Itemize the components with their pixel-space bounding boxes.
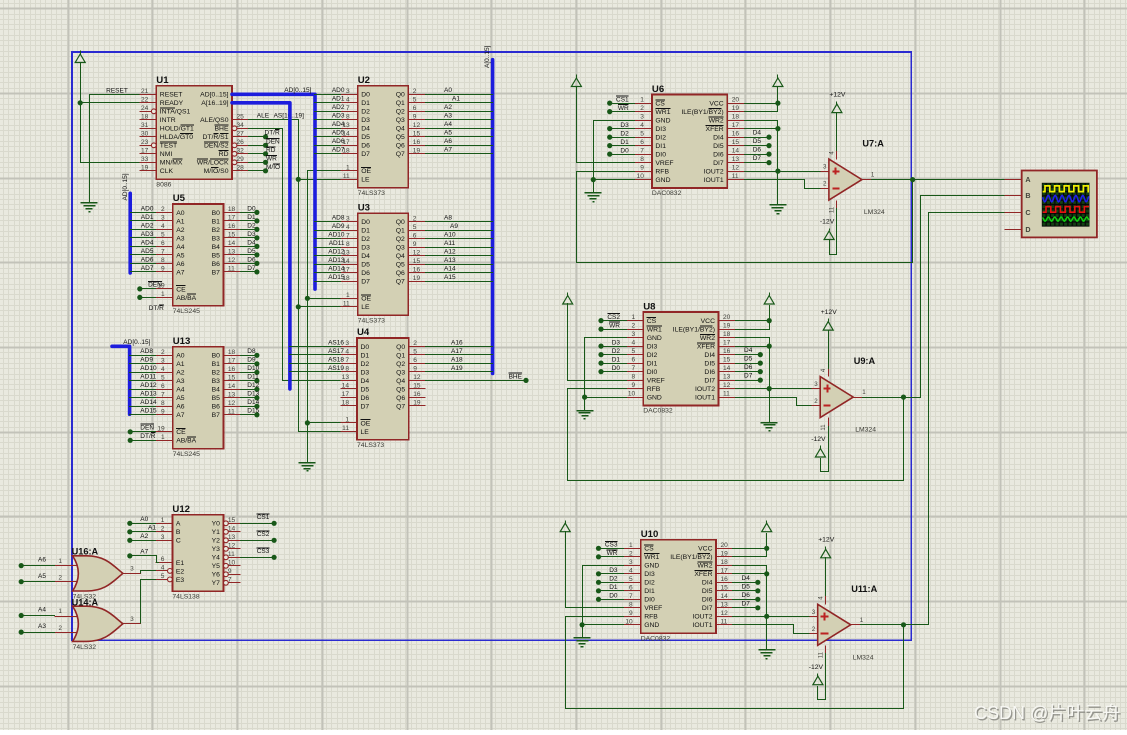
svg-text:8: 8 (346, 241, 350, 248)
wires U10 DI4-DI7 (D4-D7) (733, 582, 758, 584)
svg-text:9: 9 (629, 610, 633, 617)
svg-text:U16:A: U16:A (72, 546, 99, 556)
svg-text:17: 17 (732, 122, 740, 129)
svg-text:D3: D3 (361, 369, 370, 376)
svg-text:A2: A2 (140, 533, 148, 540)
svg-text:GND: GND (655, 118, 670, 125)
svg-text:D7: D7 (361, 151, 370, 158)
wire U3 OE branch (308, 298, 341, 300)
wire +12V supply to U7:A (836, 113, 838, 151)
svg-text:AB/BA: AB/BA (176, 438, 196, 445)
svg-text:6: 6 (161, 556, 165, 563)
svg-text:DI6: DI6 (702, 597, 713, 604)
svg-text:CE: CE (176, 429, 186, 436)
svg-text:D6: D6 (361, 143, 370, 150)
svg-text:2: 2 (413, 340, 417, 347)
svg-text:14: 14 (723, 365, 731, 372)
svg-text:A7: A7 (176, 412, 185, 419)
svg-text:7: 7 (345, 357, 349, 364)
svg-text:18: 18 (228, 349, 236, 356)
svg-text:-12V: -12V (811, 436, 826, 443)
svg-text:1: 1 (629, 542, 633, 549)
svg-text:D5: D5 (361, 386, 370, 393)
svg-text:U7:A: U7:A (862, 139, 884, 149)
svg-text:16: 16 (723, 348, 731, 355)
svg-text:A6: A6 (444, 138, 452, 145)
svg-text:A2: A2 (444, 104, 452, 111)
svg-text:Q0: Q0 (396, 344, 405, 351)
svg-text:11: 11 (721, 618, 728, 625)
svg-text:AD11: AD11 (140, 374, 156, 381)
svg-text:A3: A3 (176, 235, 185, 242)
svg-text:1: 1 (59, 558, 63, 565)
svg-text:A6: A6 (38, 557, 46, 564)
svg-text:26: 26 (237, 139, 245, 146)
wire U8 WR2/XFER/IOUT2 chain to ground (736, 338, 770, 423)
svg-text:8: 8 (345, 366, 349, 373)
svg-text:CS: CS (655, 101, 665, 108)
svg-text:CS3: CS3 (257, 548, 270, 555)
svg-text:A7: A7 (176, 269, 185, 276)
wire U8 GND pins to ground (585, 338, 627, 411)
svg-text:A0: A0 (176, 353, 185, 360)
svg-text:18: 18 (342, 400, 350, 407)
svg-text:11: 11 (830, 206, 836, 213)
svg-text:Y5: Y5 (212, 563, 221, 570)
svg-text:A9: A9 (450, 223, 458, 230)
svg-text:DEN: DEN (140, 425, 154, 432)
svg-text:74LS32: 74LS32 (73, 644, 97, 651)
svg-text:2: 2 (640, 105, 644, 112)
svg-text:AS16: AS16 (328, 339, 344, 346)
svg-text:15: 15 (413, 130, 421, 137)
svg-text:3: 3 (346, 215, 350, 222)
svg-text:15: 15 (413, 383, 421, 390)
power arrow +12V U7:A (832, 102, 842, 113)
svg-text:D1: D1 (361, 100, 370, 107)
svg-text:2: 2 (632, 323, 636, 330)
svg-text:A3: A3 (444, 113, 452, 120)
power arrow U8 VREF (563, 293, 573, 305)
svg-text:DI3: DI3 (644, 571, 655, 578)
ground U10 left (574, 638, 591, 647)
svg-text:18: 18 (723, 331, 731, 338)
svg-text:9: 9 (161, 266, 165, 273)
svg-text:A1: A1 (176, 218, 185, 225)
svg-text:AS18: AS18 (328, 356, 344, 363)
wires U8 DI3-DI0 (D3-D0) (601, 346, 627, 348)
svg-text:A1: A1 (148, 525, 156, 532)
svg-text:A11: A11 (444, 240, 455, 247)
wire U8 VCC/ILE to supply arrow (736, 306, 770, 330)
svg-text:7: 7 (632, 365, 636, 372)
svg-text:2: 2 (823, 181, 827, 188)
svg-text:23: 23 (141, 139, 149, 146)
svg-text:18: 18 (141, 113, 149, 120)
wire U8 CS (CS2) (601, 320, 627, 322)
wire U6 RFB feedback (577, 172, 913, 263)
svg-text:3: 3 (640, 114, 644, 121)
svg-text:15: 15 (721, 584, 729, 591)
svg-text:RD: RD (219, 151, 229, 158)
svg-text:A: A (1025, 175, 1030, 184)
svg-text:DI4: DI4 (702, 580, 713, 587)
svg-text:1: 1 (862, 389, 866, 396)
svg-text:7: 7 (629, 593, 633, 600)
svg-text:WR/LOCK: WR/LOCK (197, 160, 229, 167)
svg-text:WR1: WR1 (655, 109, 670, 116)
svg-text:AD0: AD0 (332, 87, 345, 94)
svg-text:Q1: Q1 (396, 100, 405, 107)
svg-text:11: 11 (228, 551, 235, 558)
svg-text:AD15: AD15 (140, 408, 157, 415)
svg-text:RESET: RESET (160, 92, 183, 99)
svg-text:+12V: +12V (829, 91, 846, 98)
wires U8 DI4-DI7 (D4-D7) (736, 354, 761, 356)
svg-text:LM324: LM324 (864, 209, 885, 216)
wire latched BHE from U4 Q4 (426, 380, 527, 382)
svg-text:U4: U4 (357, 327, 370, 338)
svg-text:Y2: Y2 (212, 538, 221, 545)
svg-text:24: 24 (141, 105, 149, 112)
svg-text:OE: OE (361, 296, 371, 303)
wire U10 GND pins to ground (583, 566, 624, 638)
svg-text:19: 19 (721, 550, 729, 557)
wire U8 WR1 (WR) (601, 329, 627, 331)
svg-text:Y1: Y1 (212, 529, 221, 536)
svg-text:11: 11 (818, 651, 824, 658)
svg-text:16: 16 (413, 391, 421, 398)
svg-text:9: 9 (413, 241, 417, 248)
svg-text:A5: A5 (176, 395, 185, 402)
svg-text:4: 4 (640, 122, 644, 129)
wire U8 VREF to supply arrow (568, 304, 627, 381)
svg-text:3: 3 (346, 88, 350, 95)
svg-text:11: 11 (343, 173, 350, 180)
svg-text:16: 16 (228, 223, 236, 230)
svg-text:DI6: DI6 (713, 152, 724, 159)
svg-text:D3: D3 (361, 117, 370, 124)
svg-text:3: 3 (161, 534, 165, 541)
svg-text:12: 12 (723, 382, 731, 389)
svg-text:6: 6 (640, 139, 644, 146)
svg-text:16: 16 (732, 131, 740, 138)
svg-text:AD4: AD4 (141, 239, 154, 246)
svg-text:ALE: ALE (257, 112, 270, 119)
svg-text:9: 9 (228, 568, 232, 575)
svg-text:25: 25 (237, 113, 245, 120)
svg-text:WR2: WR2 (709, 118, 724, 125)
svg-text:9: 9 (413, 113, 417, 120)
svg-text:7: 7 (161, 249, 165, 256)
svg-text:DT/R/S1: DT/R/S1 (202, 134, 228, 141)
svg-text:IOUT1: IOUT1 (704, 177, 724, 184)
wires U2 Q outputs to A bus (426, 94, 493, 96)
svg-text:Q3: Q3 (396, 369, 405, 376)
svg-text:B2: B2 (212, 227, 221, 234)
wire U8 IOUT1 to op-amp - input (736, 398, 812, 406)
svg-text:D14: D14 (247, 399, 259, 406)
svg-text:8: 8 (346, 113, 350, 120)
svg-text:B3: B3 (212, 235, 221, 242)
svg-text:D5: D5 (753, 138, 762, 145)
svg-text:12: 12 (228, 542, 236, 549)
svg-text:D5: D5 (361, 134, 370, 141)
svg-text:XFER: XFER (706, 126, 724, 133)
svg-text:AB/BA: AB/BA (176, 295, 196, 302)
svg-text:BHE: BHE (215, 126, 229, 133)
svg-text:D1: D1 (612, 356, 621, 363)
svg-text:NMI: NMI (160, 151, 173, 158)
svg-text:A7: A7 (140, 549, 148, 556)
svg-text:2: 2 (59, 574, 63, 581)
svg-text:5: 5 (161, 573, 165, 580)
svg-text:8: 8 (632, 374, 636, 381)
svg-text:U1: U1 (156, 75, 169, 86)
svg-text:U2: U2 (358, 75, 370, 86)
svg-text:1: 1 (640, 97, 644, 104)
svg-text:4: 4 (346, 96, 350, 103)
svg-text:A0: A0 (140, 516, 148, 523)
svg-text:A5: A5 (38, 573, 46, 580)
wire U10 VCC/ILE to supply arrow (733, 534, 767, 557)
svg-text:13: 13 (732, 156, 740, 163)
svg-text:XFER: XFER (694, 571, 712, 578)
power arrow -12V U9:A (815, 446, 825, 458)
wire U9:A output to scope (863, 196, 1005, 398)
wire U5 CE (DEN) (140, 288, 156, 290)
chip U4 74LS373 (341, 327, 426, 449)
svg-text:9: 9 (640, 165, 644, 172)
svg-text:+12V: +12V (821, 309, 838, 316)
svg-text:D6: D6 (753, 147, 762, 154)
svg-text:LM324: LM324 (855, 427, 876, 434)
wire U10 WR2/XFER/IOUT2 chain to ground (733, 566, 767, 650)
wire U6 WR1 (WR) (610, 111, 635, 113)
svg-text:DI2: DI2 (647, 352, 658, 359)
svg-text:D4: D4 (753, 130, 762, 137)
wire M/IO stub (249, 170, 266, 172)
svg-text:7: 7 (161, 391, 165, 398)
svg-text:AD2: AD2 (141, 222, 154, 229)
svg-text:B0: B0 (212, 353, 221, 360)
svg-text:16: 16 (413, 266, 421, 273)
svg-text:11: 11 (821, 424, 827, 431)
wire U12 A input (A0) (130, 523, 156, 525)
wires U12 Y0/Y2/Y4 chip selects (241, 523, 275, 525)
svg-text:WR2: WR2 (697, 563, 712, 570)
svg-text:B: B (176, 529, 181, 536)
svg-text:Y3: Y3 (212, 546, 221, 553)
svg-text:12: 12 (413, 122, 421, 129)
svg-text:HOLD/GT1: HOLD/GT1 (160, 126, 194, 133)
svg-text:12: 12 (721, 610, 729, 617)
waveform channel C red square (1043, 207, 1089, 213)
wires U6 DI4-DI7 (D4-D7) (745, 137, 769, 139)
svg-text:3: 3 (130, 616, 134, 623)
svg-text:CS2: CS2 (607, 314, 620, 321)
wire READY (81, 102, 140, 104)
svg-text:-12V: -12V (809, 664, 824, 671)
svg-text:3: 3 (632, 331, 636, 338)
svg-text:WR: WR (607, 550, 618, 557)
svg-text:16: 16 (413, 139, 421, 146)
wires U3 Q outputs to A bus (426, 221, 493, 223)
waveform channel A yellow square (1043, 186, 1089, 192)
wire A6 input (22, 565, 55, 567)
svg-text:D0: D0 (361, 344, 370, 351)
power arrow U6 VCC (773, 75, 783, 87)
svg-text:3: 3 (161, 215, 165, 222)
svg-text:GND: GND (647, 335, 662, 342)
svg-text:D5: D5 (742, 583, 751, 590)
svg-text:6: 6 (413, 357, 417, 364)
svg-text:3: 3 (130, 566, 134, 573)
svg-text:D3: D3 (361, 245, 370, 252)
chip U5 74LS245 (156, 193, 241, 315)
svg-text:DI2: DI2 (644, 580, 655, 587)
svg-text:D4: D4 (742, 575, 751, 582)
svg-text:12: 12 (413, 249, 421, 256)
svg-text:U9:A: U9:A (854, 356, 876, 366)
svg-text:AD9: AD9 (332, 223, 345, 230)
svg-text:DI7: DI7 (704, 378, 715, 385)
svg-text:MN/MX: MN/MX (160, 160, 183, 167)
svg-text:D12: D12 (247, 382, 259, 389)
svg-text:WR: WR (618, 105, 629, 112)
svg-text:74LS245: 74LS245 (173, 451, 200, 458)
svg-text:4: 4 (632, 340, 636, 347)
svg-text:11: 11 (228, 408, 235, 415)
svg-text:IOUT2: IOUT2 (704, 169, 724, 176)
power arrow U8 VCC (764, 293, 774, 305)
wire U8 RFB feedback (568, 389, 904, 481)
svg-text:8: 8 (161, 257, 165, 264)
svg-text:D7: D7 (361, 279, 370, 286)
svg-text:AD[0..15]: AD[0..15] (284, 87, 311, 94)
svg-text:D5: D5 (361, 262, 370, 269)
svg-text:7: 7 (346, 105, 350, 112)
svg-text:Y4: Y4 (212, 555, 221, 562)
svg-text:DI0: DI0 (644, 597, 655, 604)
wire U16 output to U12 E2 (141, 571, 156, 574)
svg-text:30: 30 (141, 130, 149, 137)
svg-text:Y0: Y0 (212, 521, 221, 528)
svg-text:18: 18 (732, 114, 740, 121)
svg-text:B4: B4 (212, 244, 221, 251)
power arrow -12V U7:A (824, 229, 834, 240)
svg-text:5: 5 (413, 224, 417, 231)
svg-text:14: 14 (732, 148, 740, 155)
svg-text:17: 17 (141, 147, 149, 154)
svg-text:DAC0832: DAC0832 (643, 408, 673, 415)
wire U6 IOUT1 to op-amp - input (745, 180, 821, 189)
wires U3 D taps from AD bus (315, 221, 341, 223)
svg-text:20: 20 (732, 97, 740, 104)
svg-text:DT/R: DT/R (265, 130, 280, 137)
svg-text:CS1: CS1 (257, 514, 270, 521)
wire U12 E1 input (A7) (130, 556, 159, 563)
wire U13 CE (DEN) (131, 431, 156, 433)
svg-text:74LS373: 74LS373 (358, 190, 385, 197)
svg-text:D1: D1 (361, 352, 370, 359)
svg-text:12: 12 (228, 257, 236, 264)
svg-text:D4: D4 (247, 239, 256, 246)
svg-text:INTA/QS1: INTA/QS1 (160, 109, 191, 116)
svg-text:B6: B6 (212, 261, 221, 268)
svg-text:DI1: DI1 (655, 143, 666, 150)
oscilloscope (1005, 171, 1097, 238)
wire A3 input (22, 632, 55, 634)
svg-text:D0: D0 (361, 92, 370, 99)
svg-text:8: 8 (629, 601, 633, 608)
svg-text:AD12: AD12 (328, 249, 345, 256)
svg-text:B3: B3 (212, 378, 221, 385)
svg-text:Q6: Q6 (396, 143, 405, 150)
svg-text:ILE(BY1/BY2): ILE(BY1/BY2) (681, 109, 723, 116)
svg-text:GND: GND (647, 395, 662, 402)
svg-text:2: 2 (413, 215, 417, 222)
svg-text:9: 9 (413, 366, 417, 373)
ground (below U4) (299, 463, 316, 471)
svg-text:M/IO: M/IO (266, 164, 280, 171)
svg-text:WR: WR (266, 156, 277, 163)
svg-text:3: 3 (814, 381, 818, 388)
svg-text:74LS245: 74LS245 (173, 308, 200, 315)
wire U10 IOUT2 to op-amp + input (733, 616, 810, 618)
svg-text:IOUT2: IOUT2 (692, 614, 712, 621)
wire U5 AB/BA (DT/R) (140, 297, 156, 299)
svg-text:Q4: Q4 (396, 126, 405, 133)
svg-text:3: 3 (823, 164, 827, 171)
wire ALE to LE line (249, 120, 341, 432)
svg-text:A6: A6 (176, 404, 185, 411)
bus AD[0..15] segment at U13 (112, 346, 130, 414)
svg-text:DI5: DI5 (704, 361, 715, 368)
wire U6 CS (CS1) (610, 103, 635, 105)
svg-text:A3: A3 (176, 378, 185, 385)
svg-text:74LS373: 74LS373 (357, 442, 384, 449)
svg-text:AD[0..15]: AD[0..15] (122, 173, 129, 200)
wire U10 RFB feedback (566, 617, 904, 709)
svg-text:AD1: AD1 (141, 214, 154, 221)
svg-text:13: 13 (228, 391, 236, 398)
svg-text:A10: A10 (444, 232, 456, 239)
svg-text:LE: LE (361, 177, 370, 184)
wire U12 C input (A2) (130, 540, 156, 542)
svg-text:3: 3 (629, 559, 633, 566)
scope screen (1042, 183, 1090, 227)
svg-text:29: 29 (237, 156, 245, 163)
chip U1 8086 (140, 75, 249, 188)
svg-text:2: 2 (814, 398, 818, 405)
svg-text:DEN: DEN (266, 139, 280, 146)
wire VCC arrow to READY and MN/MX (81, 63, 140, 163)
svg-text:DI4: DI4 (713, 135, 724, 142)
svg-text:A8: A8 (444, 215, 452, 222)
svg-text:6: 6 (161, 383, 165, 390)
svg-text:AD7: AD7 (332, 147, 345, 154)
svg-text:17: 17 (342, 391, 350, 398)
wire -12V supply to U11:A (818, 654, 826, 700)
svg-text:D4: D4 (361, 253, 370, 260)
svg-text:12: 12 (732, 165, 740, 172)
wires U5 A taps from AD bus (131, 212, 156, 214)
svg-text:A5: A5 (176, 252, 185, 259)
svg-text:AD3: AD3 (332, 113, 345, 120)
svg-text:AD8: AD8 (332, 215, 345, 222)
svg-text:B6: B6 (212, 404, 221, 411)
